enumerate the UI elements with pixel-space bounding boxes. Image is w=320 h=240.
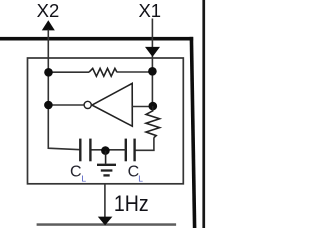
- ground symbol: [97, 151, 116, 176]
- wire: inverter output to X1 node: [132, 106, 152, 108]
- X1 wire vertical: [151, 19, 153, 107]
- resistor Rs (vertical zigzag): [146, 106, 160, 138]
- svg-text:X2: X2: [37, 0, 60, 21]
- outer box: oscillator block: [28, 58, 184, 184]
- wire: resistor bottom to C2: [135, 138, 154, 151]
- label C_L right: [128, 163, 144, 183]
- label C_L left: [70, 163, 86, 183]
- svg-text:C: C: [70, 163, 82, 180]
- resistor R feedback (horizontal zigzag): [89, 68, 117, 76]
- wire: feedback right segment: [117, 71, 152, 73]
- wire: 1Hz output vertical: [104, 184, 106, 218]
- wire: bottom row between capacitors: [90, 149, 125, 151]
- svg-text:1Hz: 1Hz: [114, 191, 149, 216]
- border: figure bottom edge (gray): [37, 223, 177, 226]
- wire: inverter input from X2 line: [48, 104, 83, 106]
- junction dot: input on X2 line: [44, 101, 53, 110]
- X1 arrow (down): [145, 47, 160, 57]
- wire: X2 vertical down to bottom row: [48, 30, 80, 150]
- wire: feedback left segment: [48, 71, 89, 73]
- border: figure right edge: [202, 0, 205, 228]
- junction dot: ground node: [101, 146, 110, 155]
- inverter triangle (points left): [92, 83, 132, 126]
- svg-text:L: L: [138, 173, 143, 183]
- output arrow (down): [98, 217, 113, 226]
- svg-text:L: L: [81, 173, 86, 183]
- junction dot: feedback-left on X2 line: [44, 68, 53, 77]
- wire: thick power bus top and right: [0, 37, 196, 228]
- capacitor C2 plates: [126, 139, 135, 162]
- junction dot: feedback-right on X1 line: [148, 67, 157, 76]
- inverter bubble: [84, 101, 91, 108]
- capacitor C1 plates: [80, 139, 90, 162]
- svg-text:X1: X1: [138, 0, 161, 21]
- X2 arrow (up): [42, 20, 55, 30]
- junction dot: output on X1 line: [149, 102, 158, 111]
